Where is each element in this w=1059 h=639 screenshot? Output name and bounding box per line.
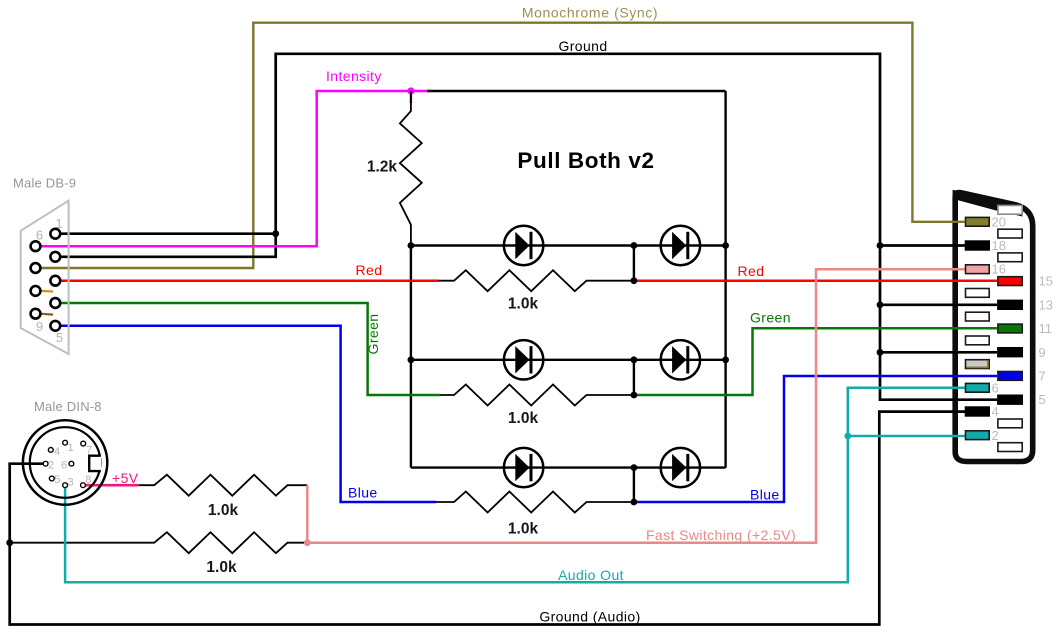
pin SCART 9 [998, 348, 1022, 357]
connector Male DIN-8 inner ring [30, 427, 101, 498]
svg-text:Audio Out: Audio Out [558, 567, 624, 583]
pin SCART 1 [998, 443, 1022, 452]
svg-text:Green: Green [365, 314, 381, 355]
junction row1 red node [631, 277, 638, 284]
svg-text:7: 7 [86, 445, 92, 457]
wire diode row 1 anode line [411, 244, 726, 246]
diode D6 row3 right [661, 448, 700, 487]
wire Blue net: resistor to SCART pin 7 [634, 376, 997, 502]
pin DIN 7 [81, 441, 86, 446]
svg-text:1.0k: 1.0k [208, 502, 239, 519]
svg-text:18: 18 [992, 238, 1006, 253]
junction row2 green node [631, 392, 638, 399]
wire Blue net: DB9 pin5 to resistor [61, 326, 437, 502]
diode D4 row2 right [661, 340, 700, 379]
junction ground audio at lower 1.0k resistor [6, 539, 13, 546]
wire Ground net top: DB9 pins 1,2 to SCART pins 18,13,9,5 [61, 232, 276, 235]
pin DIN 3 [63, 483, 68, 488]
svg-text:Blue: Blue [750, 487, 780, 503]
junction audio branch [844, 433, 851, 440]
svg-text:+5V: +5V [112, 470, 139, 486]
SCART top wedge [953, 190, 1023, 217]
pin DIN 2 [43, 461, 48, 466]
svg-text:5: 5 [54, 474, 60, 486]
junction ground at SCART 18 branch [877, 242, 884, 249]
pin SCART 8 olive bevel [967, 361, 988, 367]
svg-text:4: 4 [992, 404, 999, 419]
svg-text:9: 9 [1039, 345, 1046, 360]
svg-text:6: 6 [992, 380, 999, 395]
svg-text:Red: Red [356, 262, 383, 278]
resistor R 1.0k row 3 [436, 492, 634, 513]
pin DB9 8 [31, 286, 41, 296]
diode D2 row1 right [661, 226, 700, 265]
pin SCART 14 [966, 289, 990, 298]
svg-text:1: 1 [68, 442, 74, 454]
junction row1 diode line [631, 242, 638, 249]
wire Green net: resistor to SCART pin 11 [634, 328, 997, 395]
pin DIN 5 [49, 476, 54, 481]
svg-text:5: 5 [1039, 392, 1046, 407]
svg-text:Blue: Blue [348, 485, 378, 501]
diode D1 row1 left [504, 226, 543, 265]
wire row 3 link resistor to diode line [633, 468, 635, 502]
resistor R 1.2k vertical on box left edge [400, 91, 422, 246]
junction row3 blue node [631, 499, 638, 506]
svg-text:6: 6 [36, 227, 43, 242]
junction left bus row 1 [408, 242, 415, 249]
svg-text:5: 5 [56, 330, 63, 345]
svg-text:3: 3 [68, 477, 74, 489]
pin DB9 6 [31, 241, 41, 251]
wire Audio Out net: DIN8 pin3 to SCART pins 6,2 [65, 388, 965, 583]
connector SCART body [955, 193, 1032, 462]
wire diode row 3 anode line [411, 466, 726, 468]
pin SCART 2 [966, 431, 990, 440]
pin DB9 5 [50, 321, 60, 331]
wire ground branch to SCART pin 18 [880, 244, 965, 247]
pin SCART 13 [998, 300, 1022, 309]
svg-text:20: 20 [992, 214, 1006, 229]
svg-text:9: 9 [36, 319, 43, 334]
pin DIN 6 [69, 461, 74, 466]
junction row2 diode line [631, 356, 638, 363]
pin DIN 8 [81, 483, 86, 488]
svg-text:6: 6 [61, 460, 67, 472]
pin SCART 4 [966, 407, 990, 416]
wire Monochrome (Sync) net: DB9 pin7 to SCART pin 20 [40, 23, 965, 268]
pin DB9 2 [50, 252, 60, 262]
svg-text:4: 4 [54, 446, 60, 458]
stub DB9 pin8 orange [41, 290, 54, 293]
connector Male DB-9 body [21, 201, 69, 354]
svg-text:2: 2 [48, 460, 54, 472]
wire Red net: resistor to SCART pin 15 [634, 279, 997, 282]
svg-text:1.0k: 1.0k [508, 296, 539, 313]
pin DB9 3 [50, 276, 60, 286]
pin SCART 17 [998, 253, 1022, 262]
wire Green net: DB9 pin4 to resistor [61, 303, 441, 395]
pin DIN 1 [63, 440, 68, 445]
wire network box top edge [427, 90, 726, 92]
svg-text:Ground (Audio): Ground (Audio) [539, 608, 640, 624]
svg-text:Male DIN-8: Male DIN-8 [34, 399, 102, 414]
wire Intensity net: DB9 pin6 magenta [40, 91, 430, 246]
pin SCART 6 [966, 383, 990, 392]
junction Intensity node at box top left [407, 87, 414, 94]
pin SCART 21 [998, 205, 1022, 214]
pin SCART 12 [966, 312, 990, 321]
wire ground branch to SCART pin 13 [880, 303, 997, 306]
pin SCART 8 gray [966, 360, 990, 369]
svg-text:Fast Switching (+2.5V): Fast Switching (+2.5V) [646, 527, 796, 543]
svg-text:Green: Green [750, 309, 791, 325]
pin DIN 4 [48, 448, 53, 453]
svg-text:1.0k: 1.0k [508, 521, 539, 538]
wire ground branch to SCART pin 9 [880, 351, 997, 354]
svg-text:13: 13 [1039, 297, 1053, 312]
junction ground at SCART 9 branch [877, 349, 884, 356]
pin DB9 4 [50, 298, 60, 308]
wire Fast Switching (+2.5V) net salmon [307, 269, 965, 543]
wire Intensity stub down from node [410, 91, 413, 103]
pin DB9 9 [31, 309, 41, 319]
svg-text:7: 7 [1039, 369, 1046, 384]
wire box left edge lower segment [410, 246, 412, 468]
svg-text:Intensity: Intensity [326, 68, 382, 84]
wire Red net: DB9 pin3 to resistor [61, 279, 439, 282]
junction ground at SCART 13 branch [877, 301, 884, 308]
svg-text:1.2k: 1.2k [367, 159, 398, 176]
stub DB9 pin9 brown [41, 313, 54, 316]
wire diode row 2 anode line [411, 359, 726, 361]
junction left bus row 2 [408, 356, 415, 363]
svg-text:1.0k: 1.0k [508, 410, 539, 427]
pin SCART 10 [966, 336, 990, 345]
svg-text:Pull Both v2: Pull Both v2 [517, 148, 654, 173]
pin SCART 5 [998, 395, 1022, 404]
pin SCART 11 [998, 324, 1022, 333]
svg-text:Red: Red [738, 263, 765, 279]
wire Ground (Audio) net: DIN8 pin2 to SCART pin 4 [10, 412, 965, 625]
diode D3 row2 left [504, 340, 543, 379]
pin SCART 19 [998, 229, 1022, 238]
pin SCART 15 [998, 277, 1022, 286]
pin DB9 1 [50, 229, 60, 239]
pin SCART 18 [966, 241, 990, 250]
svg-text:16: 16 [992, 262, 1006, 277]
wire box right edge (diode cathode bus) [724, 91, 726, 468]
pin SCART 3 [998, 419, 1022, 428]
connector DIN-8 key notch [88, 455, 101, 471]
svg-text:Ground: Ground [558, 38, 607, 54]
svg-text:15: 15 [1039, 274, 1053, 289]
svg-text:8: 8 [85, 474, 91, 486]
svg-text:2: 2 [992, 428, 999, 443]
pin SCART 16 [966, 265, 990, 274]
resistor R 1.0k row 2 [440, 385, 634, 406]
pin SCART 20 [966, 217, 990, 226]
pin SCART 7 [998, 372, 1022, 381]
wire DB9 pin2 ground [61, 54, 998, 400]
connector Male DIN-8 body outer ring [23, 420, 107, 504]
junction ground at pin1 wire [272, 230, 279, 237]
diode D5 row3 left [504, 448, 543, 487]
wire row 1 link resistor to diode line [633, 246, 635, 281]
svg-text:1.0k: 1.0k [206, 559, 237, 576]
wire +5V net: DIN8 pin8 [83, 484, 139, 487]
svg-text:Monochrome (Sync): Monochrome (Sync) [522, 5, 658, 21]
svg-text:Male DB-9: Male DB-9 [13, 176, 76, 191]
wire row 2 link resistor to diode line [633, 360, 635, 395]
svg-text:11: 11 [1039, 321, 1053, 336]
junction cathode bus row 2 [722, 356, 729, 363]
junction cathode bus row 1 [722, 242, 729, 249]
resistor R 1.0k upper divider [139, 475, 308, 496]
resistor R 1.0k lower divider [10, 532, 308, 553]
resistor R 1.0k row 1 [439, 270, 634, 291]
wire audio branch to SCART pin 2 [848, 435, 965, 438]
pin DB9 7 [31, 263, 41, 273]
junction row3 diode line [631, 464, 638, 471]
junction fast switching node [304, 539, 311, 546]
